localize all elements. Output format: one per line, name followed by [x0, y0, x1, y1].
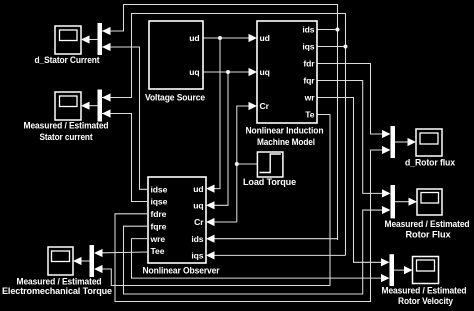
svg-text:wre: wre: [150, 234, 166, 244]
svg-text:Measured / Estimated: Measured / Estimated: [17, 277, 102, 287]
scope S3 Measured/Estimated Electromechanical Torque: [48, 247, 73, 275]
scope S6 Measured/Estimated Rotor Velocity: [413, 257, 439, 284]
wire mux M5 output to scope S5: [395, 201, 410, 203]
wire mux M2 output to scope S2: [89, 105, 98, 107]
wire net Te: NIMM.Te to mux M3 bottom: [102, 115, 330, 286]
junction node on Cr wire: [235, 162, 239, 166]
svg-text:idse: idse: [151, 185, 168, 195]
arrowhead into NIMM uq: [249, 68, 258, 76]
svg-text:iqs: iqs: [191, 251, 203, 261]
svg-text:Rotor Velocity: Rotor Velocity: [398, 296, 453, 306]
arrowhead into mux M6 input 2: [381, 274, 390, 282]
arrowhead into NIMM ud: [249, 34, 258, 42]
arrowhead into mux M1 input 2: [102, 43, 111, 51]
mux M3 for Measured/Estimated Electromechanical Torque: [90, 245, 95, 277]
arrowhead into scope S6: [404, 266, 413, 274]
arrowhead into Observer ud: [206, 185, 215, 193]
block Load Torque with step icon: [257, 152, 283, 177]
svg-text:Measured / Estimated: Measured / Estimated: [24, 120, 109, 130]
arrowhead into mux M2 input 2: [102, 109, 111, 117]
mux M2 for Measured/Estimated Stator current: [98, 90, 103, 122]
svg-text:Cr: Cr: [194, 217, 204, 227]
wire net idse: Observer.idse to mux M1 bottom: [102, 47, 147, 189]
mux M4 for d_Rotor flux: [391, 126, 396, 158]
svg-text:fdr: fdr: [303, 59, 315, 69]
svg-text:fqre: fqre: [151, 221, 167, 231]
arrowhead into scope S1: [81, 35, 90, 43]
svg-text:d_Stator Current: d_Stator Current: [35, 55, 100, 65]
wire net uq: Voltage Source.uq to NIMM.uq and Observer.uq: [203, 72, 249, 205]
svg-text:uq: uq: [193, 201, 203, 211]
svg-text:Stator current: Stator current: [40, 132, 93, 142]
label Measured / Estimated Electromechanical Torque: [2, 277, 112, 297]
wire net Tee: Observer.Tee to mux M3 top: [102, 251, 147, 254]
scope S2 Measured/Estimated Stator current: [55, 92, 81, 120]
svg-text:Machine Model: Machine Model: [257, 137, 315, 147]
wire mux M3 output to scope S3: [81, 260, 90, 262]
wire net fqr: NIMM.fqr to mux M5 top: [317, 81, 383, 194]
svg-text:uq: uq: [260, 67, 270, 77]
svg-text:Nonlinear Observer: Nonlinear Observer: [143, 266, 221, 276]
svg-text:Te: Te: [305, 110, 315, 120]
junction node on ud wire: [218, 36, 222, 40]
svg-text:d_Rotor flux: d_Rotor flux: [405, 158, 455, 168]
svg-text:ud: ud: [193, 184, 203, 194]
label Measured / Estimated Rotor Flux: [385, 219, 470, 239]
arrowhead into mux M4 input 2: [382, 146, 391, 154]
svg-text:fqr: fqr: [303, 76, 315, 86]
mux M6 for Measured/Estimated Rotor Velocity: [390, 254, 395, 286]
wire net ud: Voltage Source.ud to NIMM.ud and Observer.ud: [203, 38, 249, 189]
svg-text:Voltage Source: Voltage Source: [145, 93, 205, 103]
arrowhead into mux M6 input 1: [381, 258, 390, 266]
arrowhead into scope S5: [409, 198, 418, 206]
label Nonlinear Induction Machine Model: [246, 126, 324, 147]
wire net wre: Observer.wre to mux M6 bottom: [132, 239, 382, 279]
wire net wr: NIMM.wr to mux M6 top: [317, 98, 382, 263]
scope S4 d_Rotor flux: [416, 129, 442, 156]
wire net fdr: NIMM.fdr to mux M4 top: [317, 64, 383, 135]
svg-text:Tee: Tee: [151, 246, 165, 256]
svg-text:iqse: iqse: [151, 197, 168, 207]
junction node on uq wire: [226, 70, 230, 74]
wire net iqs: NIMM.iqs to mux M2 top and Observer.iqs: [102, 14, 346, 256]
block Voltage Source: [149, 21, 203, 89]
junction node on iqs wire: [344, 45, 348, 49]
mux M1 for d_Stator Current: [98, 23, 103, 55]
svg-text:uq: uq: [189, 67, 199, 77]
scope S1 d_Stator Current: [55, 26, 81, 54]
svg-text:Measured / Estimated: Measured / Estimated: [382, 285, 467, 295]
arrowhead into mux M5 input 2: [382, 206, 391, 214]
svg-text:Nonlinear Induction: Nonlinear Induction: [246, 126, 324, 136]
arrowhead into scope S4: [408, 138, 417, 146]
label Measured / Estimated Rotor Velocity: [382, 285, 467, 306]
wire mux M1 output to scope S1: [89, 39, 98, 41]
wire net iqse: Observer.iqse to mux M2 bottom: [102, 114, 147, 202]
wire mux M4 output to scope S4: [395, 141, 409, 143]
svg-text:ud: ud: [189, 33, 199, 43]
arrowhead into mux M5 input 1: [382, 189, 391, 197]
svg-text:ids: ids: [302, 25, 314, 35]
mux M5 for Measured/Estimated Rotor Flux: [391, 185, 396, 218]
block Nonlinear Observer: [148, 177, 206, 263]
arrowhead into scope S2: [81, 102, 90, 110]
svg-text:Electromechanical Torque: Electromechanical Torque: [2, 286, 112, 296]
block Nonlinear Induction Machine Model: [257, 21, 317, 123]
scope S5 Measured/Estimated Rotor Flux: [417, 189, 442, 215]
arrowhead into mux M2 input 1: [102, 93, 111, 101]
wire mux M6 output to scope S6: [394, 269, 405, 271]
label Measured / Estimated Stator current: [24, 120, 109, 142]
arrowhead into NIMM Cr: [249, 102, 258, 110]
svg-text:Rotor Flux: Rotor Flux: [406, 229, 451, 239]
svg-text:ud: ud: [260, 33, 270, 43]
arrowhead into scope S3: [73, 257, 82, 265]
arrowhead into Observer Cr: [206, 218, 215, 226]
svg-text:ids: ids: [191, 234, 203, 244]
arrowhead into Observer iqs: [206, 251, 215, 259]
arrowhead into Observer ids: [206, 235, 215, 243]
svg-text:iqs: iqs: [302, 42, 314, 52]
wire net fqre: Observer.fqre to mux M5 bottom: [124, 210, 383, 294]
svg-text:wr: wr: [304, 93, 316, 103]
arrowhead into mux M3 input 1: [94, 249, 103, 257]
wire net fdre: Observer.fdre to mux M4 bottom: [115, 150, 383, 302]
junction node on ids wire: [336, 28, 340, 32]
svg-text:fdre: fdre: [151, 209, 167, 219]
svg-text:Measured / Estimated: Measured / Estimated: [385, 219, 470, 229]
arrowhead into mux M1 input 1: [102, 27, 111, 35]
svg-text:Cr: Cr: [260, 101, 270, 111]
wire net ids: NIMM.ids to mux M1 top and Observer.ids: [102, 5, 338, 241]
arrowhead into mux M3 input 2: [94, 265, 103, 273]
arrowhead into mux M4 input 1: [382, 130, 391, 138]
arrowhead into Observer uq: [206, 201, 215, 209]
wire net Cr: Load Torque to NIMM.Cr and Observer.Cr: [215, 106, 258, 222]
svg-text:Load Torque: Load Torque: [243, 177, 296, 187]
